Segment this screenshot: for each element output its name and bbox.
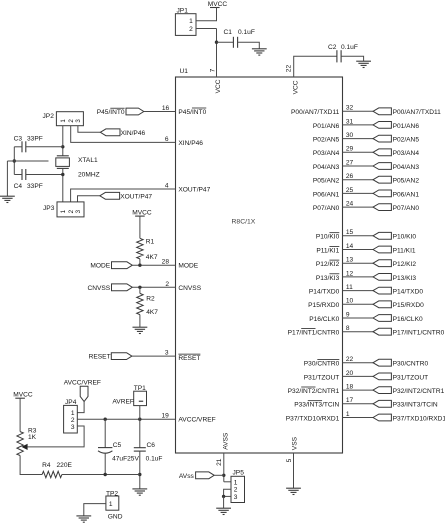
svg-text:P11/KI1: P11/KI1 (393, 247, 416, 254)
capacitor C4 (22, 169, 26, 180)
wire left vertical C3-C4 (13, 147, 15, 175)
svg-text:P02/AN5: P02/AN5 (313, 137, 340, 144)
U1 pin name AVSS (222, 432, 229, 450)
connector JP4 label (65, 399, 77, 406)
connector JP2 (56, 112, 83, 126)
junction dot C5 tap (104, 418, 107, 421)
capacitor C5 curved plate (98, 451, 112, 453)
wire R2 to ground (139, 315, 141, 328)
U1 pin name P01/AN6 (313, 123, 340, 130)
svg-text:1: 1 (346, 411, 350, 418)
capacitor C1 value 0.1uF (238, 29, 255, 36)
power port MVCC (R3) (13, 392, 33, 399)
wire U1 pin 12 to flag (343, 276, 374, 278)
JP3 pin 1 number (60, 209, 67, 213)
svg-text:C6: C6 (147, 442, 156, 449)
svg-text:11: 11 (346, 284, 353, 291)
JP2 pin 3 number (75, 119, 82, 123)
svg-text:CNVSS: CNVSS (87, 285, 110, 292)
svg-text:P33/INT3/TCIN: P33/INT3/TCIN (294, 402, 339, 409)
svg-text:C4: C4 (14, 183, 23, 190)
U1 pin 20 number (346, 370, 354, 377)
svg-text:3: 3 (75, 119, 82, 123)
U1 pin name XIN/P46 (178, 140, 203, 147)
wire U1 pin 11 to flag (343, 290, 374, 292)
svg-text:21: 21 (216, 458, 223, 466)
wire C2 right lead to ground (341, 56, 364, 61)
svg-text:U1: U1 (180, 68, 189, 75)
net flag P10/KI0 label (393, 234, 417, 241)
JP1 pin 2 number (189, 26, 193, 33)
TP2 pin 1 number (109, 501, 113, 508)
svg-text:26: 26 (346, 173, 354, 180)
crystal XTAL1 top electrode (57, 155, 69, 157)
net flag P05/AN2 label (393, 178, 420, 185)
svg-text:P14/TXD0: P14/TXD0 (393, 289, 424, 296)
wire JP1 pin2 to VCC rail (196, 28, 217, 30)
junction dot TP1/C6 tap (138, 418, 141, 421)
JP4 pin 1 number (71, 410, 75, 417)
svg-text:P07/AN0: P07/AN0 (393, 205, 420, 212)
JP3 pin 2 number (68, 209, 75, 213)
svg-text:P06/AN1: P06/AN1 (313, 191, 340, 198)
U1 pin name P15/RXD0 (308, 302, 339, 309)
junction dot at C1 tap (215, 41, 218, 44)
ground for R2 (133, 327, 148, 333)
ground for C2 (356, 61, 371, 67)
svg-text:P03/AN4: P03/AN4 (313, 150, 340, 157)
U1 pin 22 number (346, 356, 354, 363)
svg-text:XOUT/P47: XOUT/P47 (120, 194, 152, 201)
svg-text:C1: C1 (224, 29, 233, 36)
wire U1 pin 25 to flag (343, 192, 374, 194)
U1 pin name P02/AN5 (313, 137, 340, 144)
wire U1 pin 8 to flag (343, 331, 374, 333)
resistor R1 value 4K7 (146, 254, 158, 261)
U1 pin name P04/AN3 (313, 164, 340, 171)
net flag CNVSS (112, 284, 133, 291)
svg-text:13: 13 (346, 257, 354, 264)
net flag P33/INT3/TCIN (373, 400, 391, 407)
svg-text:P16/CLK0: P16/CLK0 (309, 316, 339, 323)
svg-text:1: 1 (234, 479, 238, 486)
wire crystal bottom to JP3 pin1 (62, 168, 64, 202)
U1 pin name VSS (292, 436, 299, 450)
svg-text:P16/CLK0: P16/CLK0 (393, 316, 423, 323)
svg-text:RESET: RESET (178, 355, 200, 362)
svg-text:17: 17 (346, 397, 354, 404)
svg-text:31: 31 (346, 118, 354, 125)
net flag P14/TXD0 label (393, 289, 424, 296)
svg-text:P15/RXD0: P15/RXD0 (393, 302, 424, 309)
net flag P02/AN5 (373, 135, 391, 142)
JP5 pin 2 number (234, 487, 238, 494)
svg-text:P37/TXD10/RXD1: P37/TXD10/RXD1 (286, 415, 340, 422)
power port MVCC (top) (208, 1, 228, 8)
svg-text:24: 24 (346, 201, 354, 208)
net flag P17/INT1/CNTR0 label (393, 330, 445, 337)
svg-text:15: 15 (346, 229, 354, 236)
net flag P30/CNTR0 (373, 359, 391, 366)
wire U1 pin 14 to flag (343, 249, 374, 251)
svg-text:AVSS: AVSS (222, 432, 229, 450)
net flag P13/KI3 label (393, 275, 417, 282)
resistor R3 label (28, 427, 37, 434)
svg-text:JP5: JP5 (233, 470, 245, 477)
svg-text:2: 2 (68, 119, 75, 123)
svg-text:R1: R1 (146, 239, 155, 246)
capacitor C2 value 0.1uF (341, 44, 358, 51)
net flag XOUT/P47 (100, 192, 120, 199)
U1 pin name P13/KI3 (316, 274, 340, 282)
U1 pin 25 number (346, 187, 354, 194)
net flag P03/AN4 (373, 149, 391, 156)
wire TP2 to ground (84, 504, 106, 516)
U1 pin name P06/AN1 (313, 191, 340, 198)
U1 pin 26 number (346, 173, 354, 180)
wire JP2 pin3 to XIN flag (78, 126, 100, 133)
U1 pin VCC name (pin 22) (293, 80, 300, 94)
svg-text:P05/AN2: P05/AN2 (393, 178, 420, 185)
svg-text:P04/AN3: P04/AN3 (393, 164, 420, 171)
wire gnd tap horizontal stub (7, 160, 48, 162)
wire JP3 pin3 to XOUT flag (78, 196, 100, 202)
net flag P13/KI3 (373, 274, 391, 281)
svg-text:P15/RXD0: P15/RXD0 (308, 302, 339, 309)
test point TP1 label (134, 385, 146, 392)
wire MVCC to R1 (139, 216, 141, 238)
svg-text:P37/TXD10/RXD1: P37/TXD10/RXD1 (393, 415, 445, 422)
svg-text:RESET: RESET (89, 354, 111, 361)
resistor R4 (42, 471, 62, 477)
net flag XIN/P46 (100, 129, 120, 136)
net flag P45/INT0 (126, 108, 144, 115)
net flag P04/AN3 label (393, 164, 420, 171)
capacitor C6 value 0.1uF (146, 456, 163, 463)
wire C1 left lead (217, 41, 234, 43)
U1 pin 22 number (286, 65, 293, 73)
test point TP2 (106, 496, 119, 510)
svg-text:C5: C5 (113, 442, 122, 449)
svg-text:25: 25 (346, 187, 354, 194)
U1 pin 12 number (346, 270, 354, 277)
wire R4 to C5/C6 bottom rail (62, 474, 140, 476)
svg-text:0.1uF: 0.1uF (238, 29, 255, 36)
svg-text:XOUT/P47: XOUT/P47 (178, 186, 210, 193)
U1 pin name P16/CLK0 (309, 316, 339, 323)
net flag P14/TXD0 (373, 287, 391, 294)
U1 part name R8C/1X (232, 219, 256, 226)
capacitor C3 (22, 141, 26, 152)
junction dot crystal bottom node (61, 173, 64, 176)
svg-text:XIN/P46: XIN/P46 (178, 140, 203, 147)
svg-text:16: 16 (162, 105, 170, 112)
net label AVREF (112, 399, 133, 406)
svg-text:JP3: JP3 (43, 205, 55, 212)
R3 wiper arrow (22, 444, 28, 450)
net flag P12/KI2 (373, 260, 391, 267)
wire C5 top lead (104, 419, 106, 447)
connector JP2 label (43, 113, 55, 120)
svg-text:P03/AN4: P03/AN4 (393, 150, 420, 157)
resistor R4 label (42, 462, 51, 469)
svg-text:P12/KI2: P12/KI2 (316, 261, 340, 268)
wire U1 pin 9 to flag (343, 317, 374, 319)
wire CNVSS to U1 pin 2 (132, 286, 175, 288)
U1 pin 3 number (165, 350, 169, 357)
junction dot left gnd tap (13, 159, 16, 162)
wire MVCC to R3 (19, 398, 21, 431)
connector JP1 (175, 14, 196, 36)
connector JP3 label (43, 205, 55, 212)
wire U1 AVSS pin down (223, 453, 225, 482)
svg-text:28: 28 (162, 259, 170, 266)
U1 pin name XOUT/P47 (178, 186, 210, 193)
wire U1 pin 24 to flag (343, 206, 374, 208)
JP2 pin 2 number (68, 119, 75, 123)
capacitor C4 value 33PF (27, 183, 43, 190)
U1 pin name P32/INT2/CNTR1 (288, 387, 340, 395)
TP1 pin 1 number (rotated) (139, 400, 143, 402)
ground for C5/C6 (132, 489, 147, 495)
svg-text:C2: C2 (328, 44, 337, 51)
wire AVss flag to node (214, 474, 224, 476)
capacitor C5 label (113, 442, 122, 449)
svg-text:P13/KI3: P13/KI3 (393, 275, 417, 282)
net flag P06/AN1 label (393, 191, 420, 198)
wire wiper to JP4 pin3 (27, 426, 84, 447)
wire AVCC flag to JP4 pin1 (77, 402, 84, 413)
svg-text:P06/AN1: P06/AN1 (393, 191, 420, 198)
U1 pin 9 number (346, 311, 350, 318)
U1 pin 28 number (162, 259, 170, 266)
U1 pin 7 number (210, 68, 217, 72)
JP5 pin 1 number (234, 479, 238, 486)
net flag P06/AN1 (373, 190, 391, 197)
wire U1 pin 29 to flag (343, 151, 374, 153)
net flag XIN/P46 label (121, 130, 146, 137)
svg-text:0.1uF: 0.1uF (341, 44, 358, 51)
capacitor C5 value 47uF25V (112, 456, 139, 463)
svg-text:CNVSS: CNVSS (178, 285, 201, 292)
wire JP5 gnd down (223, 496, 225, 508)
net flag P45/INT0 label (97, 108, 125, 116)
U1 pin 13 number (346, 257, 354, 264)
junction dot AVss flag node (222, 474, 225, 477)
wire U1 pin 13 to flag (343, 262, 374, 264)
U1 pin 24 number (346, 201, 354, 208)
svg-text:P01/AN6: P01/AN6 (393, 123, 420, 130)
wire AVSS to JP5 pin1 (224, 481, 231, 483)
wire JP5 pin3 stub (224, 495, 231, 497)
U1 pin 17 number (346, 397, 354, 404)
wire AVCC rail JP4 pin2 to U1 pin 19 (77, 418, 175, 420)
net flag AVss label (179, 473, 195, 480)
ground for VSS (286, 488, 301, 494)
svg-text:20MHZ: 20MHZ (78, 171, 100, 178)
svg-text:R2: R2 (146, 295, 155, 302)
wire C1 right lead to ground (238, 42, 260, 49)
U1 pin name RESET (178, 354, 200, 362)
svg-text:P32/INT2/CNTR1: P32/INT2/CNTR1 (393, 388, 445, 395)
svg-text:10: 10 (346, 298, 354, 305)
svg-text:33PF: 33PF (27, 136, 43, 143)
net flag P00/AN7/TXD11 (373, 108, 391, 115)
IC U1 R8C/1X microcontroller body (176, 77, 343, 453)
wire C5 bottom lead (104, 453, 106, 474)
wire JP5 pin2 stub (224, 489, 231, 496)
crystal XTAL1 value 20MHZ (78, 171, 100, 178)
net flag P11/KI1 label (393, 247, 416, 254)
U1 pin 27 number (346, 159, 354, 166)
U1 reference designator (180, 68, 189, 75)
wire U1 pin 26 to flag (343, 179, 374, 181)
U1 pin name P11/KI1 (316, 246, 339, 254)
svg-text:0.1uF: 0.1uF (146, 456, 163, 463)
svg-text:P11/KI1: P11/KI1 (316, 247, 339, 254)
connector JP4 (64, 405, 78, 433)
svg-text:VCC: VCC (293, 80, 300, 94)
svg-text:5: 5 (286, 458, 293, 462)
net flag P04/AN3 (373, 163, 391, 170)
svg-text:MODE: MODE (90, 263, 110, 270)
svg-text:19: 19 (161, 413, 169, 420)
net flag P31/TZOUT (373, 373, 391, 380)
ground for crystal caps (0, 196, 15, 202)
capacitor C1 (233, 37, 237, 48)
U1 pin 18 number (346, 384, 354, 391)
svg-text:4K7: 4K7 (146, 309, 158, 316)
svg-text:P10/KI0: P10/KI0 (393, 234, 417, 241)
JP4 pin 2 number (71, 417, 75, 424)
U1 pin 1 number (346, 411, 350, 418)
svg-text:3: 3 (165, 350, 169, 357)
net flag P07/AN0 label (393, 205, 420, 212)
U1 pin 16 number (162, 105, 170, 112)
net flag RESET (111, 353, 132, 360)
net flag AVss (196, 472, 215, 479)
wire U1 pin 32 to flag (343, 110, 374, 112)
svg-text:220E: 220E (57, 462, 73, 469)
U1 pin 11 number (346, 284, 353, 291)
junction dot JP5 gnd node (222, 495, 225, 498)
net flag P03/AN4 label (393, 150, 420, 157)
U1 pin 4 number (165, 182, 169, 189)
resistor R2 value 4K7 (146, 309, 158, 316)
wire U1 pin 27 to flag (343, 165, 374, 167)
svg-text:3: 3 (234, 494, 238, 501)
net flag P17/INT1/CNTR0 (373, 328, 391, 335)
U1 pin 5 number (286, 458, 293, 462)
svg-text:20: 20 (346, 370, 354, 377)
junction dot crystal top node (61, 145, 64, 148)
connector JP3 (57, 202, 84, 217)
U1 pin 31 number (346, 118, 354, 125)
U1 pin 2 number (165, 281, 169, 288)
wire P45 flag to U1 pin 16 (144, 111, 176, 113)
wire U1 pin 22 to C2 (294, 56, 337, 77)
wire U1 pin 1 to flag (343, 417, 374, 419)
svg-text:JP4: JP4 (65, 399, 77, 406)
svg-text:R4: R4 (42, 462, 51, 469)
wire R1 to MODE node (139, 259, 141, 265)
svg-text:4: 4 (165, 182, 169, 189)
capacitor C5 plus plate (98, 447, 112, 449)
U1 pin 30 number (346, 132, 354, 139)
JP5 pin 3 number (234, 494, 238, 501)
net flag P16/CLK0 label (393, 316, 423, 323)
net flag P16/CLK0 (373, 315, 391, 322)
JP1 pin 1 number (189, 18, 193, 25)
svg-text:AVREF: AVREF (112, 399, 133, 406)
test point TP1 (134, 391, 147, 405)
svg-text:JP2: JP2 (43, 113, 55, 120)
svg-text:2: 2 (189, 26, 193, 33)
U1 pin name P07/AN0 (313, 205, 340, 212)
wire U1 pin 20 to flag (343, 375, 374, 377)
power flag AVCC/VREF label (64, 380, 101, 387)
net flag P32/INT2/CNTR1 (373, 387, 391, 394)
svg-text:22: 22 (286, 65, 293, 73)
svg-text:P04/AN3: P04/AN3 (313, 164, 340, 171)
wire C6 top lead (139, 419, 141, 448)
wire U1 pin 22 to flag (343, 362, 374, 364)
U1 pin 14 number (346, 243, 354, 250)
net flag P01/AN6 label (393, 123, 420, 130)
ground for C1 (252, 49, 267, 55)
net flag P37/TXD10/RXD1 label (393, 415, 445, 422)
junction dot MODE-R1 (138, 264, 141, 267)
svg-text:29: 29 (346, 146, 354, 153)
U1 pin name P14/TXD0 (309, 289, 340, 296)
svg-text:1: 1 (189, 18, 193, 25)
wire U1 pin 17 to flag (343, 403, 374, 405)
svg-text:P45/INT0: P45/INT0 (97, 109, 125, 116)
U1 pin name P31/TZOUT (304, 374, 340, 381)
U1 pin name P17/INT1/CNTR0 (288, 329, 340, 337)
svg-text:P31/TZOUT: P31/TZOUT (393, 374, 429, 381)
wire C6 bottom lead to ground (139, 451, 141, 489)
capacitor C1 label (224, 29, 233, 36)
wire U1 pin 18 to flag (343, 389, 374, 391)
svg-text:33PF: 33PF (27, 183, 43, 190)
crystal XTAL1 bottom electrode (57, 167, 69, 169)
svg-text:MODE: MODE (178, 263, 198, 270)
svg-text:27: 27 (346, 159, 354, 166)
svg-text:3: 3 (71, 424, 75, 431)
svg-text:P45/INT0: P45/INT0 (178, 109, 206, 116)
resistor R2 label (146, 295, 155, 302)
net flag P15/RXD0 label (393, 302, 424, 309)
wire U1 pin 15 to flag (343, 235, 374, 237)
junction dot C5 bottom (104, 473, 107, 476)
ground for TP2 (76, 516, 91, 522)
svg-text:1: 1 (109, 501, 113, 508)
svg-text:VSS: VSS (292, 436, 299, 450)
svg-text:P02/AN5: P02/AN5 (393, 137, 420, 144)
U1 pin name P45/INT0 (178, 108, 206, 116)
svg-text:VCC: VCC (215, 79, 222, 93)
wire U1 pin 31 to flag (343, 124, 374, 126)
svg-text:P31/TZOUT: P31/TZOUT (304, 374, 340, 381)
U1 pin name CNVSS (178, 285, 201, 292)
capacitor C2 label (328, 44, 337, 51)
svg-text:XTAL1: XTAL1 (78, 157, 98, 164)
wire C3 right lead (26, 146, 63, 148)
svg-text:P07/AN0: P07/AN0 (313, 205, 340, 212)
svg-text:9: 9 (346, 311, 350, 318)
wire C4 left lead (14, 174, 22, 176)
